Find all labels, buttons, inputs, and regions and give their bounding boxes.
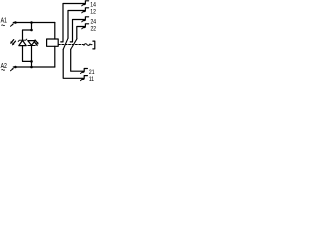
linkage dash xyxy=(91,44,92,46)
terminal A1 label xyxy=(1,17,7,24)
LED arrows right xyxy=(35,40,37,43)
wire coil feed top xyxy=(54,23,56,40)
junction dot branch rejoin xyxy=(30,60,33,63)
junction dot branch split xyxy=(30,29,33,32)
contact 14 wire xyxy=(61,4,85,42)
relay coil K1 xyxy=(47,39,59,46)
wire coil feed bottom xyxy=(54,46,56,67)
contact lever 1 xyxy=(63,39,68,50)
terminal 12 plug symbol xyxy=(84,8,89,12)
wire A1 horizontal xyxy=(13,22,55,24)
contact lever 2 xyxy=(71,39,77,50)
LED arrows left xyxy=(11,40,13,43)
terminal 22 label xyxy=(91,25,97,32)
contact 24 wire xyxy=(70,20,84,42)
terminal 12 label xyxy=(90,9,96,16)
terminal 22 plug symbol xyxy=(84,24,89,28)
terminal 21 plug symbol xyxy=(83,69,88,73)
A1 junction dot xyxy=(14,21,17,24)
wire zener branch bottom xyxy=(23,46,32,62)
junction dot A2 wire xyxy=(30,66,33,69)
A2 tilde (AC mark) xyxy=(2,68,5,71)
terminal 24 plug symbol xyxy=(84,17,89,21)
LED D2 xyxy=(28,41,35,46)
linkage wave symbol xyxy=(84,44,90,46)
svg-text:A2: A2 xyxy=(1,63,7,70)
svg-text:21: 21 xyxy=(89,69,95,76)
zener diode D1 xyxy=(19,40,26,45)
svg-text:22: 22 xyxy=(91,25,97,32)
common wire 11 xyxy=(63,49,83,78)
terminal 14 label xyxy=(90,1,96,8)
contact 22 wire xyxy=(77,27,85,39)
contact 12 wire xyxy=(68,11,85,39)
A1 tilde (AC mark) xyxy=(2,24,5,27)
common wire 21 xyxy=(71,49,84,71)
A2 plug-in terminal symbol xyxy=(11,70,13,71)
terminal A2 label xyxy=(1,63,7,70)
A2 junction dot xyxy=(14,66,17,69)
terminal 11 plug symbol xyxy=(83,76,88,80)
terminal 14 plug symbol xyxy=(84,1,89,5)
wire LED branch drop xyxy=(31,23,33,31)
svg-text:12: 12 xyxy=(90,9,96,16)
mechanical linkage (dashed) xyxy=(58,44,83,46)
svg-text:A1: A1 xyxy=(1,17,7,24)
terminal 21 label xyxy=(89,69,95,76)
wire LED branch bottom xyxy=(31,46,33,68)
terminal 24 label xyxy=(91,19,97,26)
svg-text:14: 14 xyxy=(90,1,96,8)
armature bracket xyxy=(93,41,95,49)
wire A2 horizontal xyxy=(13,66,55,68)
wire zener branch top xyxy=(23,30,32,40)
svg-text:11: 11 xyxy=(89,76,94,83)
terminal 11 label xyxy=(89,76,94,83)
junction dot LED branch top xyxy=(30,21,33,24)
A1 plug-in terminal symbol xyxy=(11,25,13,26)
